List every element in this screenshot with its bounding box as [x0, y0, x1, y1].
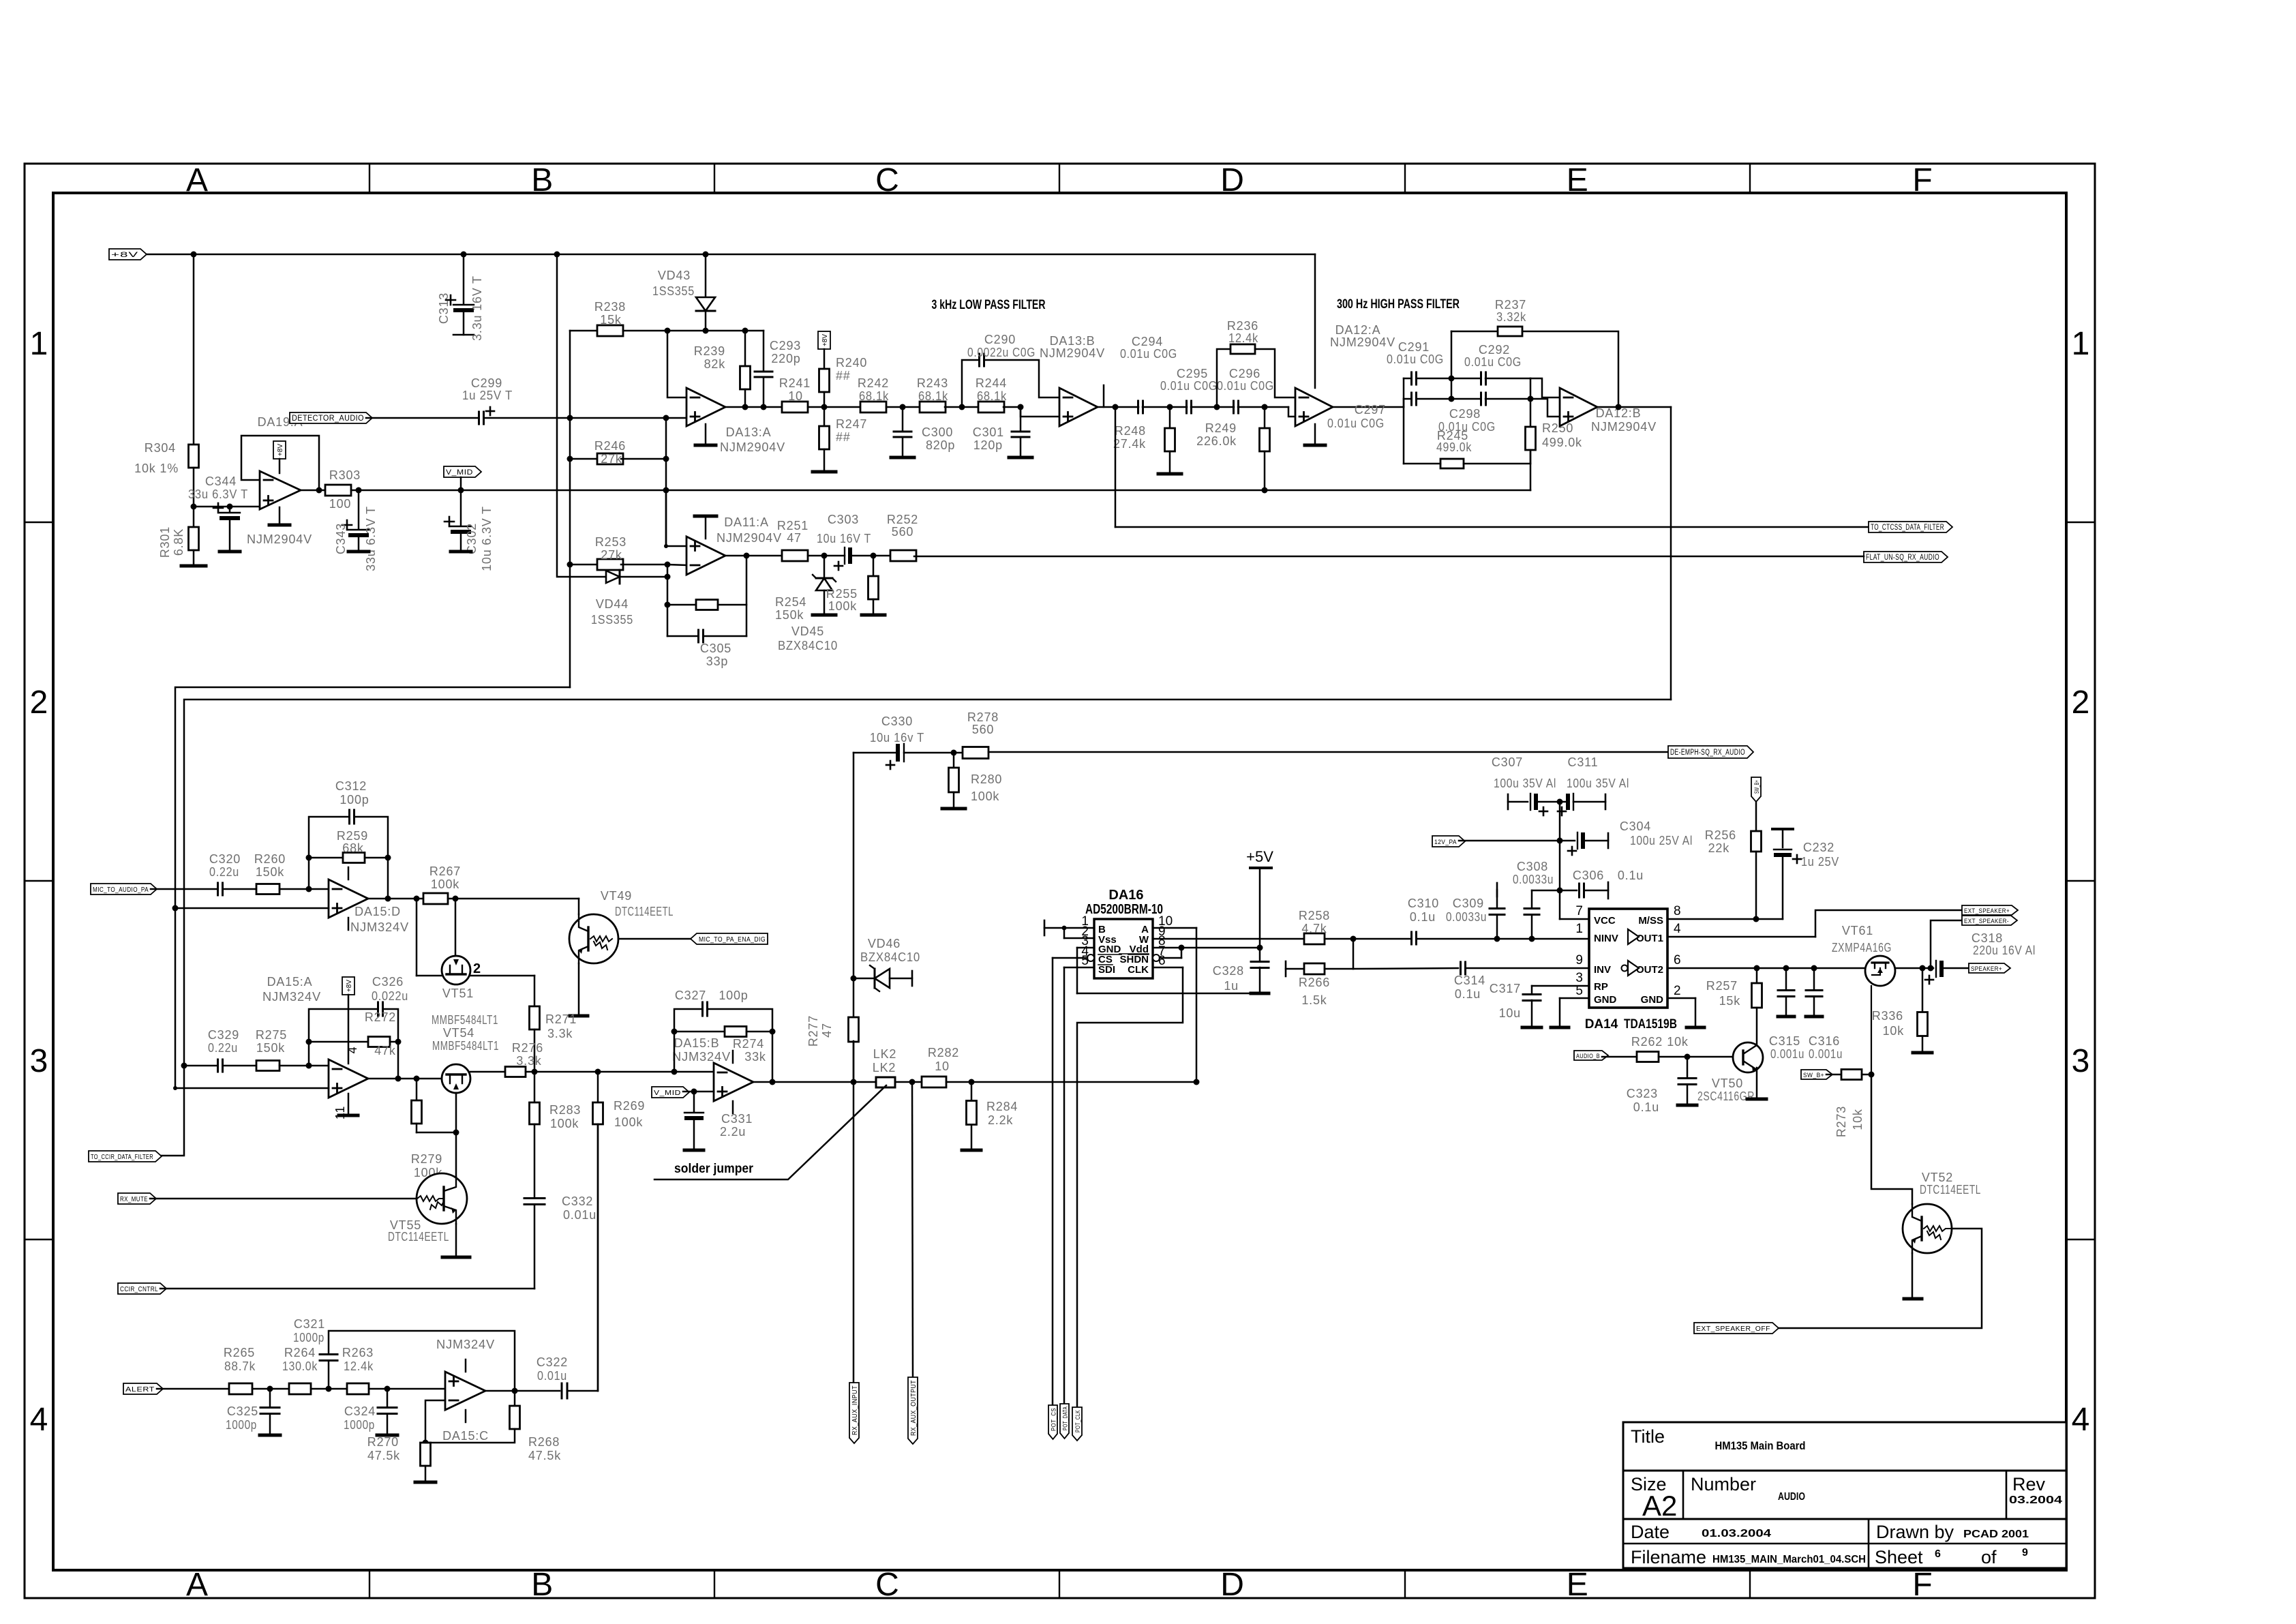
svg-text:R264: R264	[284, 1346, 316, 1359]
svg-text:0.01u C0G: 0.01u C0G	[1160, 379, 1218, 393]
svg-text:OUT1: OUT1	[1636, 933, 1663, 944]
svg-text:NJM2904V: NJM2904V	[247, 532, 312, 546]
wire C296 to DA12:A	[1238, 404, 1295, 417]
resistor R284	[967, 1082, 1018, 1148]
capacitor C326 feedback	[309, 975, 408, 1079]
resistor R279	[411, 1079, 456, 1179]
svg-text:150k: 150k	[256, 865, 284, 879]
resistor R272	[306, 1010, 402, 1057]
svg-text:C320: C320	[209, 852, 241, 866]
svg-text:POT_CLK: POT_CLK	[1074, 1410, 1082, 1432]
svg-text:10: 10	[788, 389, 803, 403]
capacitor C304	[1560, 819, 1693, 855]
sheet inner border frame	[53, 193, 2066, 1570]
svg-text:C292: C292	[1479, 343, 1510, 357]
svg-text:DA11:A: DA11:A	[724, 515, 769, 529]
capacitor C332	[524, 1124, 596, 1289]
wire DA12:B output down bus	[1670, 407, 1672, 700]
svg-text:0.1u: 0.1u	[1633, 1100, 1659, 1114]
svg-text:A: A	[186, 162, 208, 198]
resistor R243	[917, 376, 948, 412]
resistor R282	[922, 1046, 959, 1087]
svg-text:Rev: Rev	[2012, 1474, 2046, 1494]
svg-text:2.2u: 2.2u	[720, 1125, 746, 1139]
svg-text:DE-EMPH-SQ_RX_AUDIO: DE-EMPH-SQ_RX_AUDIO	[1670, 749, 1745, 757]
ground below R280	[942, 807, 965, 811]
svg-text:Title: Title	[1631, 1426, 1665, 1447]
DA14 M/SS wire	[1667, 918, 1783, 920]
svg-text:3.3k: 3.3k	[516, 1054, 541, 1068]
svg-text:DA15:B: DA15:B	[674, 1036, 720, 1050]
wire +8V to R304	[193, 254, 195, 445]
svg-text:10k: 10k	[1883, 1024, 1905, 1038]
capacitor C300	[894, 407, 955, 455]
capacitor C305	[667, 630, 746, 668]
svg-text:0.01u C0G: 0.01u C0G	[1217, 379, 1274, 393]
svg-text:SW_B+: SW_B+	[1753, 780, 1760, 794]
svg-text:0.01u C0G: 0.01u C0G	[1464, 355, 1522, 369]
svg-text:VT52: VT52	[1922, 1171, 1953, 1184]
svg-text:R273: R273	[1834, 1106, 1848, 1137]
svg-text:NJM2904V: NJM2904V	[716, 531, 782, 545]
capacitor C320	[209, 852, 241, 895]
svg-text:R248: R248	[1115, 424, 1146, 438]
op-amp DA13:B	[1040, 334, 1105, 426]
svg-text:1SS355: 1SS355	[591, 613, 633, 627]
wire HPF middle node	[1417, 331, 1481, 402]
svg-text:R280: R280	[971, 772, 1002, 786]
svg-text:R278: R278	[967, 710, 999, 724]
svg-text:C316: C316	[1809, 1034, 1840, 1048]
resistor R271	[530, 1006, 577, 1040]
wire R242 to R243	[886, 404, 920, 410]
power flag +8V at DA15:A	[342, 977, 359, 1064]
wire V_MID rail	[319, 487, 1530, 494]
wire R251 to C303	[808, 553, 845, 559]
capacitor C321 feedback	[293, 1317, 515, 1391]
net flag AUDIO_B	[1574, 1051, 1608, 1060]
capacitor C318	[1925, 931, 2036, 984]
wire VT51 gate path	[417, 899, 442, 976]
svg-text:1: 1	[2072, 326, 2090, 362]
svg-text:VT51: VT51	[442, 987, 474, 1000]
capacitor C316	[1806, 968, 1843, 1061]
svg-text:DA12:A: DA12:A	[1335, 323, 1381, 337]
wire CCIR bus line	[155, 700, 1671, 1156]
svg-text:BZX84C10: BZX84C10	[860, 950, 920, 964]
label solder jumper	[654, 1085, 886, 1179]
svg-text:33u 6.3V T: 33u 6.3V T	[364, 506, 378, 571]
svg-text:D: D	[1220, 162, 1244, 198]
svg-text:R268: R268	[528, 1435, 560, 1449]
svg-text:R238: R238	[594, 300, 626, 314]
svg-text:MMBF5484LT1: MMBF5484LT1	[432, 1039, 499, 1053]
svg-text:0.22u: 0.22u	[208, 1041, 238, 1055]
svg-text:+8V: +8V	[277, 444, 284, 456]
svg-text:82k: 82k	[704, 357, 726, 371]
svg-text:33p: 33p	[706, 655, 728, 668]
net flag V_MID	[444, 466, 481, 490]
svg-text:NJM324V: NJM324V	[262, 990, 321, 1004]
capacitor C322	[537, 1355, 568, 1398]
svg-text:C321: C321	[294, 1317, 325, 1331]
capacitor C297	[1327, 393, 1417, 430]
svg-text:RX_MUTE: RX_MUTE	[120, 1196, 148, 1203]
wire VT49 base to flag	[618, 938, 697, 940]
capacitor C290 feedback	[962, 333, 1059, 407]
svg-text:DTC114EETL: DTC114EETL	[388, 1230, 449, 1244]
svg-text:R265: R265	[224, 1346, 255, 1359]
svg-text:9: 9	[1575, 953, 1583, 967]
svg-text:DTC114EETL: DTC114EETL	[1920, 1183, 1981, 1197]
svg-text:VT50: VT50	[1712, 1077, 1743, 1090]
svg-text:R255: R255	[826, 587, 858, 601]
net flag CCIR_CNTRL	[118, 1283, 166, 1294]
svg-text:3: 3	[30, 1043, 48, 1079]
svg-text:HM135_MAIN_March01_04.SCH: HM135_MAIN_March01_04.SCH	[1712, 1554, 1866, 1565]
capacitor C301	[973, 407, 1029, 455]
svg-text:C309: C309	[1453, 897, 1484, 910]
DA16 pin numbers	[1081, 914, 1173, 968]
resistor R301	[158, 526, 199, 558]
capacitor C317	[1490, 982, 1541, 1025]
svg-text:2: 2	[30, 685, 48, 721]
svg-text:4: 4	[30, 1402, 48, 1438]
capacitor C291	[1387, 340, 1444, 385]
svg-text:499.0k: 499.0k	[1436, 440, 1472, 454]
solder jumper LK2	[873, 1047, 896, 1087]
label 300 Hz HIGH PASS FILTER	[1337, 297, 1460, 312]
svg-text:POT_DATA: POT_DATA	[1062, 1407, 1070, 1430]
svg-text:C232: C232	[1803, 841, 1834, 854]
svg-text:TDA1519B: TDA1519B	[1624, 1017, 1677, 1032]
wire DA12:A output node	[1333, 378, 1404, 407]
svg-text:R266: R266	[1299, 976, 1330, 989]
svg-text:10k: 10k	[1667, 1035, 1689, 1049]
svg-text:C300: C300	[922, 425, 953, 439]
svg-text:ZXMP4A16G: ZXMP4A16G	[1832, 941, 1892, 954]
wire HPF right node	[1485, 378, 1560, 427]
wire DA15:A output	[368, 1076, 442, 1082]
svg-text:3.3u 16V T: 3.3u 16V T	[470, 275, 484, 341]
svg-text:C306: C306	[1573, 869, 1604, 882]
svg-text:C308: C308	[1517, 860, 1548, 873]
svg-text:VT54: VT54	[443, 1026, 474, 1040]
svg-text:FLAT_UN-SQ_RX_AUDIO: FLAT_UN-SQ_RX_AUDIO	[1866, 554, 1939, 562]
wire DA11:A feedback	[665, 553, 750, 637]
svg-text:VCC: VCC	[1594, 915, 1616, 927]
wire RX_MUTE to VT55	[150, 1198, 417, 1200]
capacitor C303	[817, 513, 871, 570]
capacitor C330	[854, 715, 924, 769]
resistor R283	[534, 1072, 536, 1103]
capacitor C311	[1557, 755, 1630, 815]
svg-text:C297: C297	[1355, 403, 1386, 417]
svg-text:DA15:A: DA15:A	[267, 975, 313, 989]
op-amp DA19:A	[247, 415, 312, 546]
svg-text:1000p: 1000p	[226, 1418, 257, 1432]
svg-text:DA13:A: DA13:A	[726, 425, 772, 439]
svg-text:Date: Date	[1631, 1522, 1670, 1542]
svg-text:2: 2	[2072, 685, 2090, 721]
wire C314 to DA14 INV	[1466, 967, 1589, 969]
svg-text:C326: C326	[372, 975, 404, 989]
wire OUT2 through to C318	[1895, 965, 1934, 972]
wire EXT_SPEAKER- riser	[1931, 920, 1962, 968]
svg-text:R246: R246	[594, 439, 626, 453]
net flag 12V_PA	[1432, 836, 1465, 847]
svg-text:AUDIO: AUDIO	[1778, 1491, 1805, 1503]
svg-text:GND: GND	[1594, 994, 1617, 1006]
svg-text:+5V: +5V	[1246, 848, 1273, 865]
svg-text:10k: 10k	[1851, 1109, 1864, 1130]
wire R256 to M/SS	[1753, 852, 1759, 922]
svg-text:100k: 100k	[431, 877, 459, 891]
resistor R253	[570, 535, 626, 570]
net flag +8V	[109, 249, 147, 260]
svg-text:7: 7	[1575, 904, 1583, 918]
wire C322 up to audio line	[567, 1124, 598, 1391]
svg-text:100u 35V Al: 100u 35V Al	[1567, 777, 1629, 790]
svg-text:R276: R276	[512, 1041, 543, 1055]
zone letters A-F bottom	[186, 1567, 1933, 1603]
transistor VT54	[432, 1026, 499, 1093]
svg-text:SPEAKER+: SPEAKER+	[1971, 965, 2002, 973]
svg-text:33u 6.3V T: 33u 6.3V T	[188, 487, 248, 501]
svg-text:226.0k: 226.0k	[1196, 434, 1237, 448]
capacitor C294	[1120, 335, 1177, 413]
svg-text:Sheet: Sheet	[1875, 1547, 1923, 1567]
DA14 pin names	[1594, 915, 1663, 1006]
svg-text:130.0k: 130.0k	[282, 1359, 318, 1373]
zone numbers 1-4 left	[30, 326, 48, 1438]
svg-text:C329: C329	[208, 1028, 239, 1042]
svg-text:C312: C312	[335, 779, 367, 793]
svg-text:C302: C302	[465, 523, 479, 554]
svg-text:C343: C343	[334, 523, 348, 554]
svg-text:R277: R277	[806, 1015, 820, 1047]
net flag POT_DATA	[1060, 1404, 1070, 1439]
wire VT52 base to EXT_SPEAKER_OFF	[1772, 1229, 1982, 1328]
resistor R266	[1286, 939, 1353, 1007]
DA16 pin 8 Vdd wire	[1153, 945, 1263, 951]
diode VD44	[591, 570, 671, 627]
DA14 OUT1 wire to EXT_SPEAKER+	[1667, 910, 1962, 937]
resistor R280	[949, 753, 1003, 807]
ground below R255	[862, 614, 885, 617]
net flag EXT_SPEAKER-	[1962, 916, 2017, 925]
svg-text:R274: R274	[733, 1037, 764, 1051]
svg-text:VT49: VT49	[601, 889, 632, 903]
wire DA13:B output stub	[1103, 385, 1105, 407]
svg-text:C330: C330	[881, 715, 913, 728]
svg-text:100u 35V Al: 100u 35V Al	[1494, 777, 1556, 790]
resistor R275	[223, 1028, 329, 1071]
wire detector audio line	[366, 415, 686, 421]
wire C303 to R252	[852, 553, 892, 559]
wire to CTCSS filter flag	[1115, 407, 1869, 527]
wire R258 to C310	[1325, 936, 1411, 942]
svg-text:V_MID: V_MID	[654, 1089, 681, 1097]
capacitor C344	[188, 475, 248, 550]
svg-text:2: 2	[1674, 984, 1681, 998]
svg-text:DTC114EETL: DTC114EETL	[615, 905, 674, 918]
capacitor C292	[1464, 343, 1522, 385]
svg-text:1: 1	[30, 326, 48, 362]
wire R265 to R264	[252, 1386, 290, 1392]
svg-text:4: 4	[2072, 1402, 2090, 1438]
svg-text:01.03.2004: 01.03.2004	[1702, 1528, 1771, 1539]
capacitor C295	[1160, 367, 1218, 413]
svg-text:F: F	[1912, 162, 1932, 198]
svg-text:33k: 33k	[744, 1050, 766, 1064]
svg-text:C298: C298	[1449, 407, 1481, 421]
svg-text:+8V: +8V	[111, 251, 138, 259]
svg-text:R271: R271	[545, 1012, 577, 1026]
wire C294 to C295	[1143, 404, 1187, 410]
net flag SW_B+ vertical	[1751, 777, 1761, 831]
svg-text:68.1k: 68.1k	[977, 389, 1007, 403]
svg-text:CLK: CLK	[1128, 964, 1149, 976]
capacitor C313	[437, 254, 484, 341]
svg-text:R252: R252	[887, 513, 918, 526]
svg-text:R251: R251	[777, 519, 809, 532]
resistor R336	[1872, 968, 1932, 1053]
zener diode VD45	[778, 556, 838, 652]
resistor R245	[1404, 399, 1530, 468]
svg-text:100: 100	[329, 497, 351, 511]
op-amp DA15:A	[262, 975, 368, 1098]
svg-text:100p: 100p	[719, 989, 748, 1002]
net flag POT_CS	[1048, 1405, 1058, 1439]
svg-text:C311: C311	[1568, 755, 1599, 769]
wire C310 to DA14 NINV	[1417, 936, 1589, 942]
diode VD43	[652, 254, 715, 331]
svg-text:10u 6.3V T: 10u 6.3V T	[480, 506, 494, 571]
svg-text:12.4k: 12.4k	[1228, 331, 1258, 345]
resistor R247	[819, 392, 868, 449]
op-amp DA11:A	[686, 515, 782, 575]
resistor R270	[367, 1435, 436, 1482]
svg-text:F: F	[1912, 1567, 1932, 1603]
svg-text:Filename: Filename	[1631, 1547, 1706, 1567]
svg-text:47k: 47k	[374, 1044, 396, 1057]
svg-text:R254: R254	[775, 595, 806, 609]
svg-text:3: 3	[2072, 1043, 2090, 1079]
capacitor C298	[1438, 393, 1496, 434]
DA16 pin 10 wire	[1153, 928, 1196, 1082]
svg-text:8: 8	[1674, 904, 1681, 918]
svg-text:POT_CS: POT_CS	[1051, 1408, 1058, 1431]
svg-text:R243: R243	[917, 376, 948, 390]
svg-text:C303: C303	[828, 513, 859, 526]
svg-text:6: 6	[1674, 953, 1681, 967]
svg-text:of: of	[1981, 1547, 1997, 1567]
svg-text:68.1k: 68.1k	[918, 389, 948, 403]
ground bar below DA13:A	[695, 424, 716, 445]
resistor R263	[342, 1346, 374, 1394]
wire RX_AUX_OUTPUT drop	[912, 1082, 913, 1377]
svg-text:R260: R260	[254, 852, 286, 866]
power pin 11 below DA15:A	[333, 1094, 358, 1119]
svg-text:R236: R236	[1227, 319, 1258, 333]
svg-text:NJM2904V: NJM2904V	[1330, 335, 1395, 349]
wire audio summing line	[532, 1069, 714, 1075]
DA14 RP wire to C317	[1532, 986, 1589, 994]
ground below R301	[181, 550, 206, 566]
svg-text:+8V: +8V	[821, 334, 829, 346]
svg-text:B: B	[531, 1567, 553, 1603]
svg-text:NJM2904V: NJM2904V	[720, 440, 785, 454]
svg-text:R283: R283	[549, 1103, 581, 1117]
svg-text:NINV: NINV	[1594, 933, 1618, 944]
wire ALERT to R265	[157, 1388, 230, 1390]
transistor VT55	[388, 1173, 467, 1244]
svg-text:DA15:C: DA15:C	[442, 1429, 489, 1443]
resistor R273	[1826, 1070, 1875, 1138]
ground below C343	[348, 550, 369, 554]
svg-text:NJM324V: NJM324V	[436, 1338, 495, 1351]
svg-text:V_MID: V_MID	[446, 468, 473, 477]
svg-text:C293: C293	[770, 339, 801, 352]
svg-text:0.22u: 0.22u	[209, 865, 239, 879]
svg-text:R275: R275	[256, 1028, 287, 1042]
resistor R239	[694, 331, 751, 407]
wire DA19 noninverting input	[194, 504, 260, 510]
ground bar below DA12:A	[1305, 424, 1325, 445]
svg-text:M/SS: M/SS	[1638, 915, 1663, 927]
ground below VT52	[1904, 1253, 1922, 1299]
svg-text:MIC_TO_PA_ENA_DIG: MIC_TO_PA_ENA_DIG	[699, 935, 766, 944]
resistor R249	[1196, 407, 1269, 490]
svg-text:0.1u: 0.1u	[1618, 869, 1644, 882]
svg-text:C307: C307	[1492, 755, 1523, 769]
op-amp DA12:A	[1295, 323, 1395, 426]
net flag MIC_TO_AUDIO_PA	[91, 884, 157, 894]
svg-text:220u 16V Al: 220u 16V Al	[1973, 944, 2036, 957]
svg-text:##: ##	[836, 369, 851, 382]
svg-text:0.01u C0G: 0.01u C0G	[1120, 347, 1177, 361]
wire R277 stub down	[853, 1041, 855, 1383]
svg-text:VD43: VD43	[658, 269, 691, 282]
svg-text:C328: C328	[1213, 964, 1244, 978]
svg-text:VD44: VD44	[596, 597, 629, 611]
svg-text:C294: C294	[1132, 335, 1163, 348]
svg-text:NJM2904V: NJM2904V	[1591, 420, 1657, 434]
capacitor C312 feedback	[309, 779, 388, 899]
wire R244 to DA13:B	[1003, 404, 1059, 417]
ground below R248	[1158, 451, 1181, 474]
svg-text:C304: C304	[1620, 819, 1651, 833]
op-amp DA15:B	[672, 1036, 753, 1113]
resistor R252	[887, 513, 918, 561]
svg-text:C305: C305	[700, 642, 731, 655]
resistor R277	[806, 1015, 859, 1047]
svg-text:1SS355: 1SS355	[652, 284, 695, 298]
wire R267 to VT49	[414, 896, 579, 915]
svg-text:+8V: +8V	[346, 980, 353, 992]
resistor R248	[1113, 407, 1175, 451]
net flag DETECTOR_AUDIO	[290, 412, 372, 423]
DA16 pin 3 GND wire	[1077, 948, 1252, 993]
svg-text:C290: C290	[984, 333, 1016, 346]
svg-text:C: C	[875, 1567, 899, 1603]
svg-text:A2: A2	[1642, 1490, 1677, 1522]
resistor R276	[470, 1041, 543, 1077]
svg-text:150k: 150k	[256, 1041, 285, 1055]
wire DA15:C inverting loop	[423, 1400, 446, 1446]
svg-text:R284: R284	[986, 1100, 1018, 1113]
